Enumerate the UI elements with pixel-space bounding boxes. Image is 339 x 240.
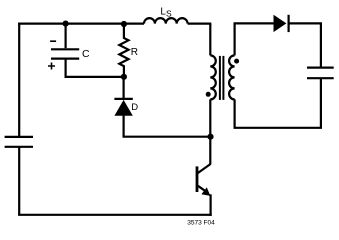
node R top [121,21,127,27]
wire left vertical lower [18,147,20,215]
transistor Q1 collector lead [198,164,211,173]
transformer T1 secondary winding [229,55,235,99]
wire capacitor C top lead [64,24,66,49]
svg-text:D: D [131,102,138,113]
transistor Q1 emitter arrow [201,187,210,196]
resistor R [119,24,128,77]
svg-text:C: C [82,48,90,60]
wire diode D anode to collector node [124,114,212,137]
label plus [48,63,55,70]
wire primary bottom to collector [209,99,211,164]
wire output diode to right corner [289,23,321,66]
capacitor C2 left plate bottom [5,146,33,148]
wire emitter vertical [210,194,212,216]
diode D lead top [122,77,124,99]
inductor LS [144,18,188,23]
wire bottom horizontal [18,214,212,216]
wire left vertical upper [18,23,20,137]
wire right loop bottom [235,78,321,128]
transformer T1 primary winding [210,55,216,99]
node C top [63,21,69,27]
wire top right of Ls to transformer [188,23,212,25]
wire secondary top lead [235,23,274,55]
transistor Q1 emitter lead [198,186,206,191]
svg-text:LS: LS [160,6,172,18]
node collector [207,134,213,140]
transistor Q1 base bar [196,166,199,192]
wire transformer primary vertical [209,24,211,56]
secondary phase dot [234,59,239,64]
capacitor COUT plate top [307,66,334,68]
output diode D2 triangle [274,15,287,32]
capacitor C plate bottom [51,57,79,59]
capacitor C plate top [51,48,79,50]
transformer T1 core line 2 [222,56,224,100]
primary phase dot [206,92,211,97]
output diode cathode bar [288,15,290,32]
capacitor COUT plate bottom [307,77,334,79]
capacitor C2 left plate top [5,136,33,138]
svg-text:3573 F04: 3573 F04 [187,220,215,227]
svg-text:R: R [131,47,138,58]
diode D cathode bar [114,98,132,100]
wire top left horizontal [18,23,144,25]
label minus [50,40,56,42]
wire capacitor C bottom lead to R node [66,59,124,77]
transformer T1 core [219,56,221,100]
node R bottom [121,74,127,80]
diode D triangle [114,100,132,116]
